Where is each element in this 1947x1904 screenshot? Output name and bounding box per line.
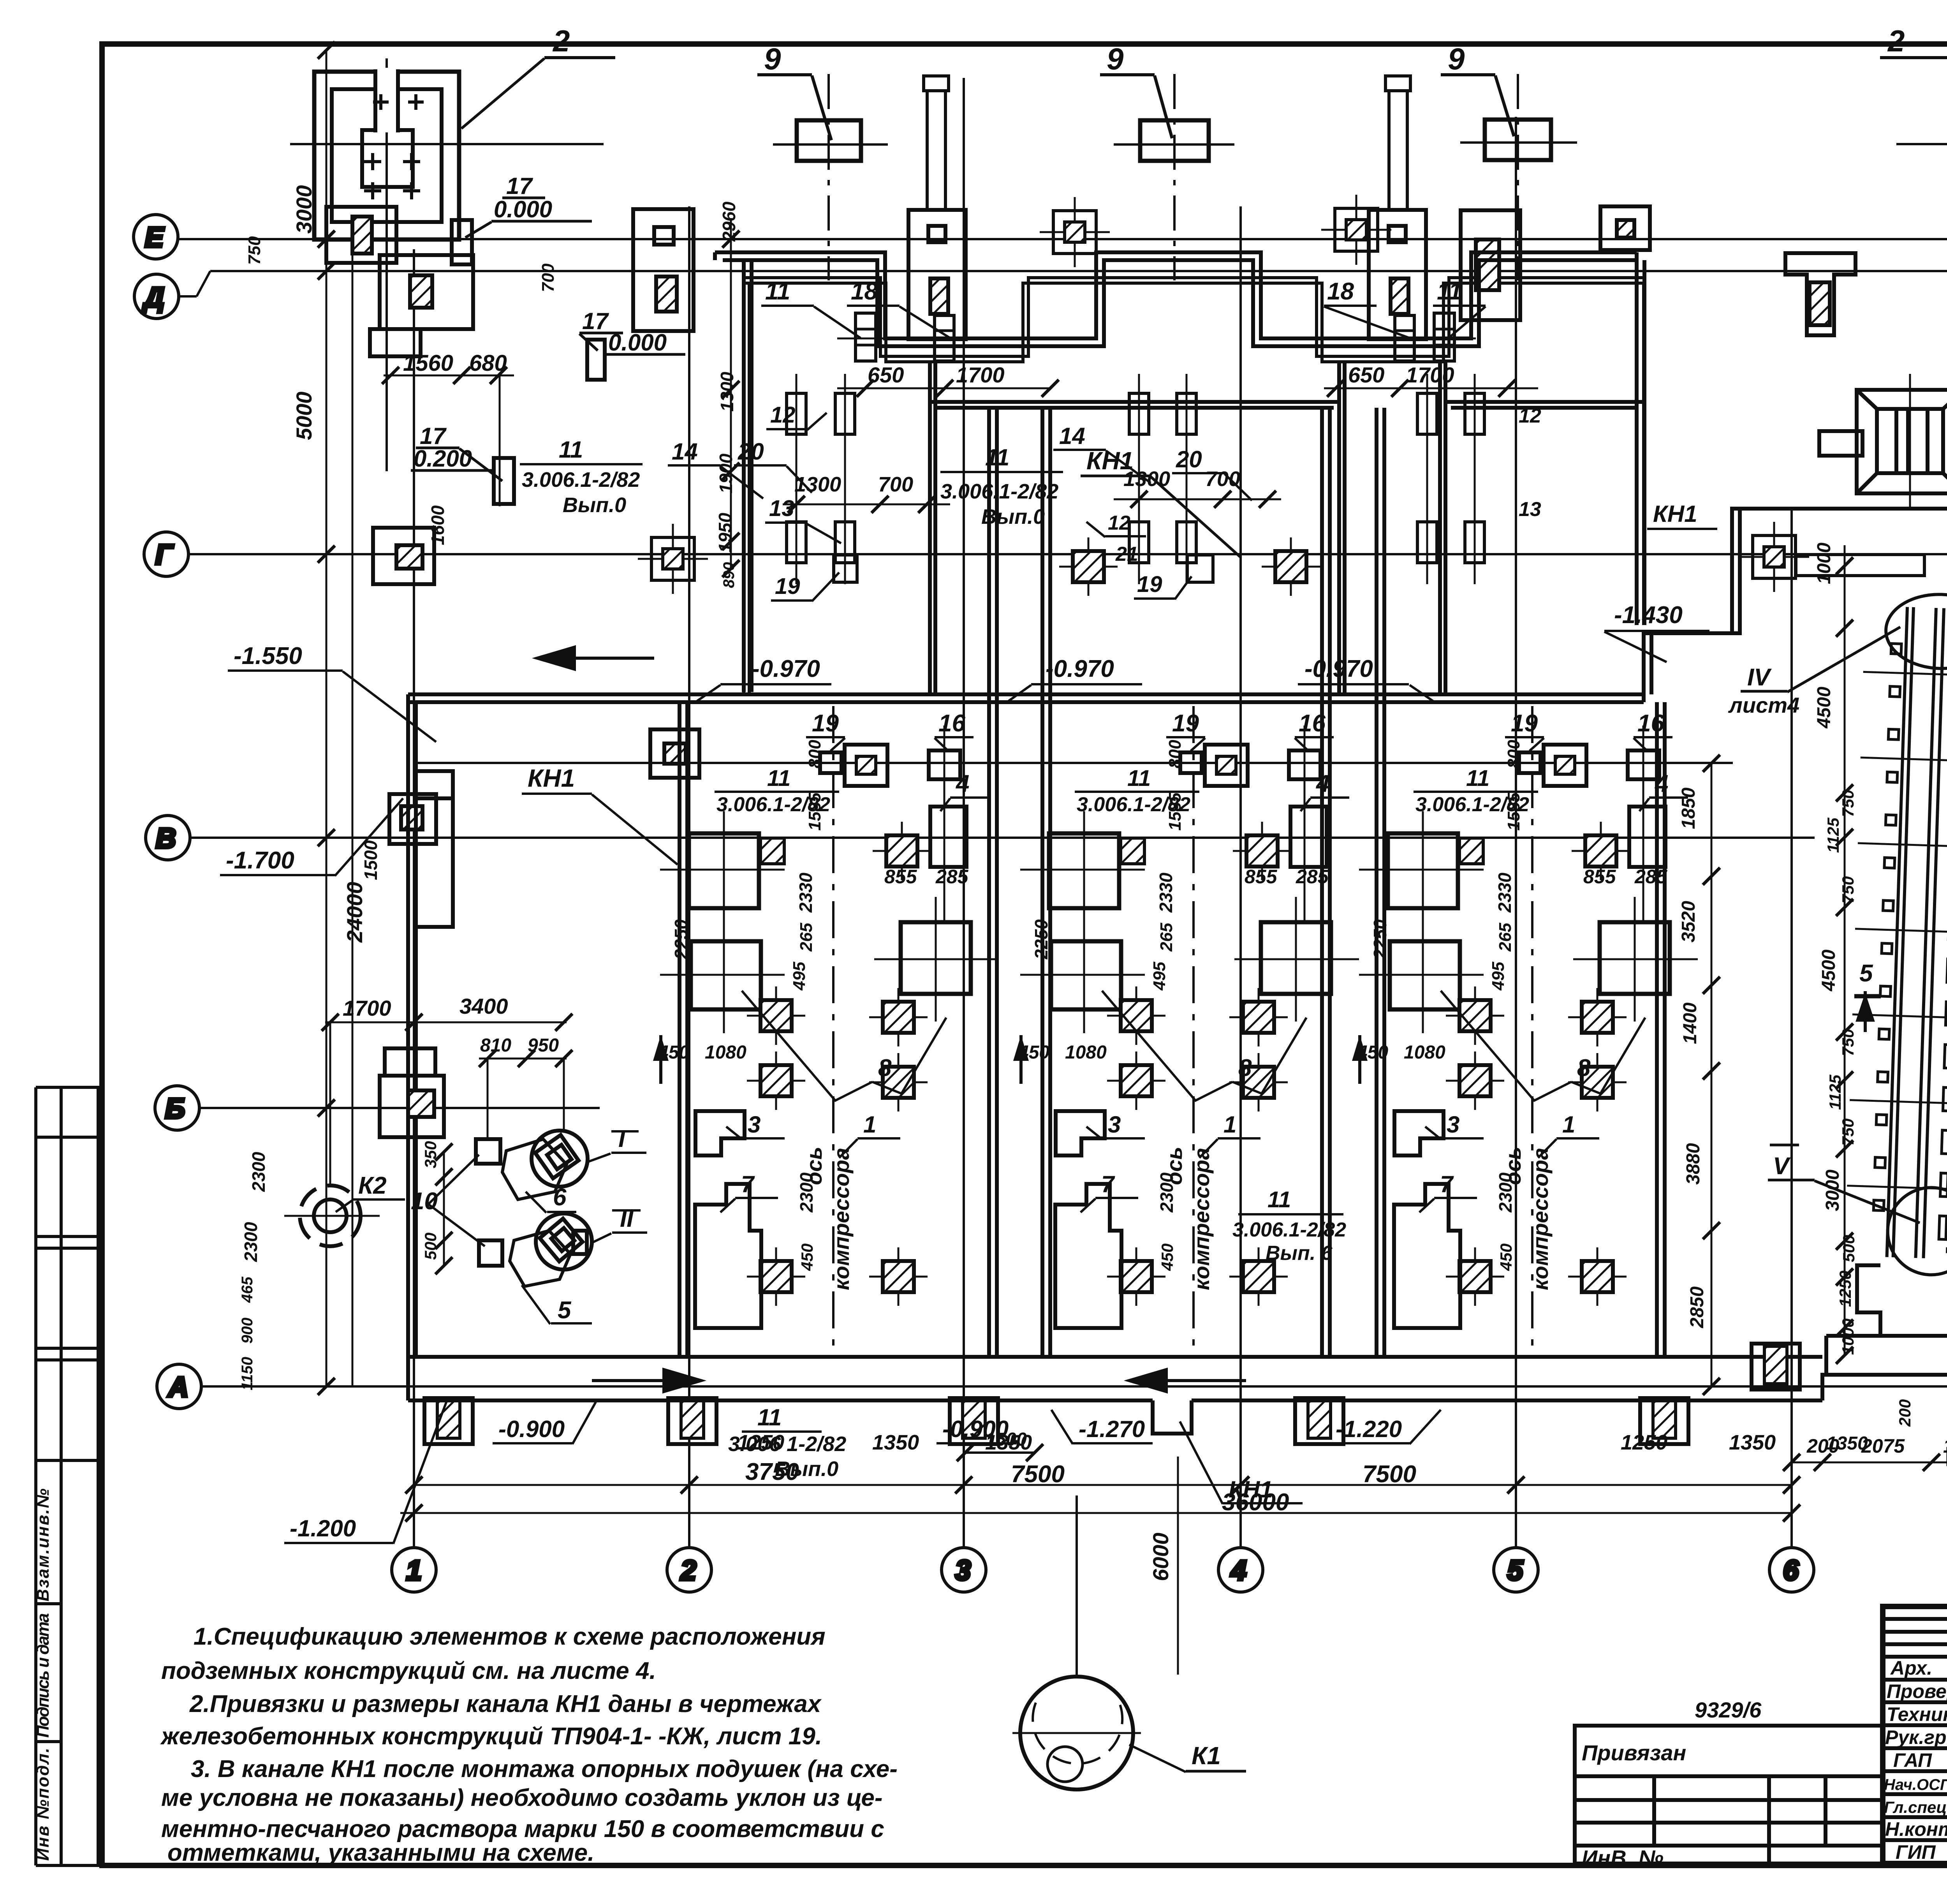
svg-text:1000: 1000 [1839, 1319, 1857, 1355]
svg-text:11: 11 [559, 437, 583, 463]
svg-text:36000: 36000 [1222, 1489, 1289, 1516]
svg-text:1: 1 [406, 1555, 422, 1586]
svg-text:12: 12 [1108, 512, 1130, 534]
svg-text:5: 5 [1859, 960, 1873, 987]
svg-text:1350: 1350 [1943, 1435, 1947, 1457]
svg-text:700: 700 [1205, 467, 1240, 491]
svg-text:3880: 3880 [1683, 1143, 1704, 1185]
svg-text:11: 11 [1437, 278, 1462, 305]
svg-text:11: 11 [757, 1404, 782, 1430]
svg-text:20: 20 [1176, 446, 1202, 472]
svg-text:3.006.1-2/82: 3.006.1-2/82 [1232, 1219, 1346, 1241]
svg-text:2300: 2300 [241, 1222, 261, 1262]
svg-text:4: 4 [1230, 1555, 1246, 1586]
svg-text:9329/6: 9329/6 [1695, 1698, 1762, 1722]
svg-text:ГИП: ГИП [1896, 1841, 1936, 1863]
svg-text:КН1: КН1 [1086, 447, 1134, 475]
svg-text:I: I [618, 1125, 626, 1152]
svg-text:200: 200 [1896, 1399, 1914, 1427]
svg-text:1900: 1900 [716, 453, 736, 493]
svg-text:2: 2 [1887, 24, 1905, 58]
svg-text:КН1: КН1 [528, 764, 575, 792]
svg-text:IV: IV [1747, 664, 1772, 691]
svg-text:К2: К2 [358, 1172, 387, 1199]
svg-text:Взам.инв.№: Взам.инв.№ [33, 1488, 53, 1601]
svg-text:11: 11 [765, 278, 790, 305]
svg-text:6: 6 [1783, 1555, 1799, 1586]
svg-text:железобетонных конструкций Т: железобетонных конструкций ТП904-1- -КЖ,… [160, 1723, 822, 1750]
svg-text:Г: Г [155, 539, 174, 571]
svg-text:19: 19 [1137, 572, 1162, 597]
svg-text:4500: 4500 [1814, 687, 1834, 729]
svg-text:750: 750 [1839, 790, 1857, 817]
svg-text:1600: 1600 [428, 505, 448, 545]
svg-text:9: 9 [764, 42, 781, 76]
svg-text:-1.700: -1.700 [226, 847, 294, 874]
svg-text:21: 21 [1115, 543, 1138, 565]
svg-text:810: 810 [480, 1035, 511, 1056]
svg-text:1700: 1700 [956, 363, 1005, 387]
svg-text:1350: 1350 [872, 1431, 919, 1454]
svg-text:-1.270: -1.270 [1079, 1416, 1145, 1442]
svg-text:5000: 5000 [292, 391, 316, 440]
svg-text:-1.550: -1.550 [234, 643, 302, 669]
svg-text:1250: 1250 [738, 1431, 784, 1454]
svg-text:-1.220: -1.220 [1336, 1416, 1402, 1442]
svg-text:1500: 1500 [361, 840, 381, 880]
svg-text:24000: 24000 [342, 882, 367, 943]
svg-text:0.200: 0.200 [414, 446, 472, 472]
svg-text:Привязан: Привязан [1582, 1740, 1686, 1765]
svg-text:750: 750 [245, 236, 264, 265]
svg-text:подземных конструкций см. н: подземных конструкций см. на листе 4. [161, 1657, 656, 1684]
svg-text:1300: 1300 [794, 473, 841, 496]
svg-text:750: 750 [1839, 1118, 1857, 1146]
svg-text:7500: 7500 [1011, 1461, 1065, 1488]
svg-text:-1.430: -1.430 [1614, 602, 1683, 629]
svg-text:1250: 1250 [1836, 1271, 1854, 1307]
svg-text:465: 465 [239, 1277, 256, 1303]
svg-text:200: 200 [1806, 1435, 1840, 1457]
svg-text:2850: 2850 [1687, 1286, 1708, 1328]
svg-text:4500: 4500 [1818, 949, 1839, 992]
svg-text:К1: К1 [1192, 1742, 1221, 1770]
svg-text:1400: 1400 [1680, 1002, 1701, 1044]
svg-text:-0.970: -0.970 [752, 655, 820, 682]
svg-text:Гл.спецТО: Гл.спецТО [1884, 1798, 1947, 1816]
svg-text:3.006.1-2/82: 3.006.1-2/82 [522, 468, 640, 491]
svg-text:5: 5 [558, 1297, 572, 1324]
svg-text:отметками, указанными на сх: отметками, указанными на схеме. [167, 1839, 594, 1866]
svg-text:14: 14 [1059, 423, 1085, 449]
svg-text:Арх.: Арх. [1890, 1657, 1932, 1679]
svg-text:3. В канале КН1 после монтаж: 3. В канале КН1 после монтажа опорных по… [191, 1756, 898, 1782]
svg-text:2: 2 [552, 24, 570, 58]
svg-text:3: 3 [955, 1555, 971, 1586]
svg-text:12: 12 [770, 402, 796, 428]
svg-text:17: 17 [420, 423, 447, 449]
svg-text:ИнВ. №: ИнВ. № [1582, 1846, 1664, 1870]
svg-text:11: 11 [1267, 1187, 1291, 1212]
svg-text:18: 18 [1327, 278, 1354, 305]
svg-text:1150: 1150 [239, 1357, 256, 1390]
svg-text:Е: Е [145, 222, 164, 253]
svg-text:9: 9 [1107, 42, 1124, 76]
svg-text:Вып.0: Вып.0 [563, 493, 626, 517]
svg-text:500: 500 [1840, 1235, 1858, 1262]
svg-text:1000: 1000 [1814, 542, 1834, 584]
svg-text:6: 6 [553, 1184, 567, 1211]
svg-text:750: 750 [1839, 876, 1857, 904]
svg-text:3750: 3750 [745, 1458, 799, 1485]
svg-text:750: 750 [1839, 1029, 1857, 1056]
svg-text:Н.контр: Н.контр [1885, 1818, 1947, 1840]
svg-text:А: А [167, 1372, 188, 1403]
svg-text:2300: 2300 [248, 1152, 269, 1192]
svg-text:3520: 3520 [1678, 901, 1699, 942]
svg-text:17: 17 [582, 308, 609, 334]
svg-text:лист4: лист4 [1728, 693, 1799, 717]
svg-text:13: 13 [1519, 498, 1541, 521]
svg-text:Рук.гр.: Рук.гр. [1885, 1726, 1947, 1748]
svg-text:1700: 1700 [343, 996, 391, 1020]
svg-text:Техник: Техник [1887, 1703, 1947, 1725]
svg-text:Д: Д [142, 282, 164, 313]
svg-text:1850: 1850 [1678, 787, 1699, 829]
svg-text:-0.900: -0.900 [498, 1416, 565, 1442]
svg-text:2: 2 [680, 1555, 696, 1586]
svg-text:Провер: Провер [1887, 1680, 1947, 1702]
svg-text:17: 17 [506, 173, 533, 199]
svg-text:350: 350 [421, 1141, 440, 1168]
svg-text:700: 700 [539, 263, 558, 292]
svg-text:0.000: 0.000 [494, 196, 552, 222]
svg-text:18: 18 [851, 278, 878, 305]
svg-text:10: 10 [411, 1188, 438, 1215]
svg-text:6000: 6000 [1148, 1532, 1173, 1581]
svg-text:5: 5 [1507, 1555, 1523, 1586]
svg-text:ментно-песчаного раствора ма: ментно-песчаного раствора марки 150 в со… [161, 1816, 884, 1842]
svg-text:КН1: КН1 [1653, 501, 1697, 527]
svg-text:3400: 3400 [459, 994, 508, 1018]
svg-text:ГАП: ГАП [1893, 1749, 1932, 1771]
svg-text:900: 900 [239, 1317, 256, 1344]
svg-text:-0.970: -0.970 [1046, 655, 1114, 682]
svg-text:1125: 1125 [1824, 817, 1842, 853]
svg-text:19: 19 [775, 574, 800, 599]
svg-text:Подпись и дата: Подпись и дата [33, 1613, 53, 1738]
svg-text:Б: Б [165, 1093, 185, 1124]
svg-text:2.Привязки и размеры канала: 2.Привязки и размеры канала КН1 даны в ч… [189, 1691, 822, 1717]
svg-text:650: 650 [868, 363, 904, 387]
svg-text:1350: 1350 [1729, 1431, 1776, 1454]
svg-text:В: В [156, 823, 176, 854]
svg-text:1250: 1250 [1621, 1431, 1667, 1454]
svg-text:Вып. 6: Вып. 6 [1266, 1242, 1333, 1265]
svg-text:14: 14 [672, 439, 698, 465]
svg-text:ме условна не показаны) не: ме условна не показаны) необходимо созда… [161, 1784, 883, 1811]
svg-text:650: 650 [1348, 363, 1384, 387]
svg-text:9: 9 [1448, 42, 1465, 76]
svg-text:-1.200: -1.200 [290, 1515, 356, 1541]
svg-text:Нач.ОСП-1: Нач.ОСП-1 [1884, 1776, 1947, 1793]
svg-text:1350: 1350 [985, 1431, 1032, 1454]
svg-text:2075: 2075 [1861, 1435, 1905, 1457]
svg-text:1.Спецификацию элементов к с: 1.Спецификацию элементов к схеме располо… [194, 1623, 826, 1650]
svg-text:1560: 1560 [403, 351, 453, 376]
svg-text:1125: 1125 [1826, 1074, 1844, 1110]
svg-text:7500: 7500 [1363, 1461, 1416, 1488]
svg-text:V: V [1773, 1153, 1791, 1180]
svg-text:700: 700 [878, 473, 913, 496]
